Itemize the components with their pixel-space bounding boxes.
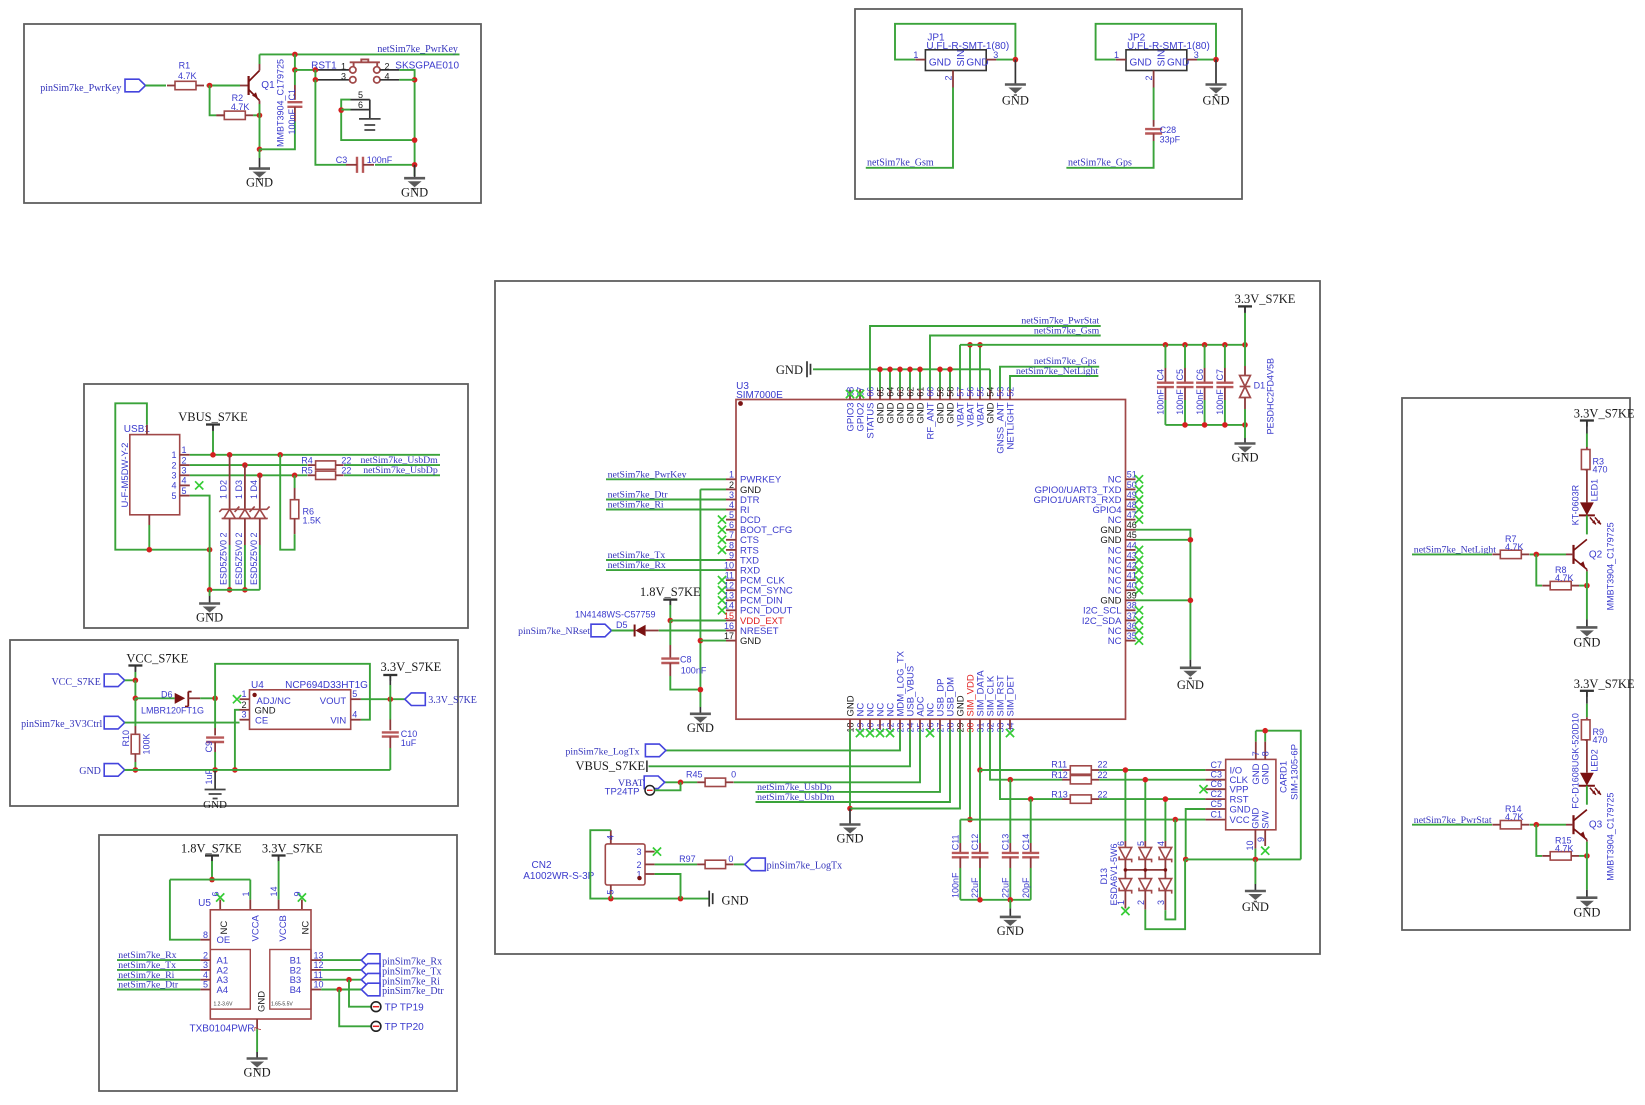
svg-text:C5: C5 bbox=[1210, 799, 1222, 809]
svg-text:1.2-3.6V: 1.2-3.6V bbox=[214, 1002, 234, 1008]
svg-text:SKSGPAE010: SKSGPAE010 bbox=[395, 61, 459, 72]
svg-text:1: 1 bbox=[182, 445, 187, 455]
svg-text:netSim7ke_Gps: netSim7ke_Gps bbox=[1068, 157, 1132, 168]
svg-text:pinSim7ke_LogTx: pinSim7ke_LogTx bbox=[565, 746, 639, 757]
svg-text:ESD5Z5V0 2: ESD5Z5V0 2 bbox=[249, 532, 259, 585]
svg-text:GND: GND bbox=[966, 58, 988, 69]
svg-text:2: 2 bbox=[241, 700, 246, 710]
svg-text:3.3V_S7KE: 3.3V_S7KE bbox=[262, 841, 323, 855]
svg-text:39: 39 bbox=[1127, 591, 1137, 601]
svg-text:22: 22 bbox=[1098, 760, 1108, 770]
svg-text:3: 3 bbox=[993, 50, 998, 60]
svg-text:VBUS_S7KE: VBUS_S7KE bbox=[178, 410, 248, 424]
svg-text:pinSim7ke_LogTx: pinSim7ke_LogTx bbox=[767, 860, 843, 871]
svg-text:netSim7ke_UsbDm: netSim7ke_UsbDm bbox=[757, 792, 835, 803]
svg-text:4: 4 bbox=[605, 835, 615, 840]
svg-text:NC: NC bbox=[301, 921, 312, 935]
svg-text:TP TP19: TP TP19 bbox=[385, 1003, 425, 1014]
svg-text:4.7K: 4.7K bbox=[1505, 812, 1524, 822]
svg-text:5: 5 bbox=[358, 90, 363, 100]
svg-text:1.8V_S7KE: 1.8V_S7KE bbox=[181, 841, 242, 855]
svg-text:A4: A4 bbox=[217, 985, 229, 996]
svg-text:C12: C12 bbox=[970, 834, 980, 851]
svg-text:D1: D1 bbox=[1254, 381, 1266, 391]
svg-text:2: 2 bbox=[182, 455, 187, 465]
svg-text:3: 3 bbox=[203, 960, 208, 970]
svg-text:40: 40 bbox=[1127, 581, 1137, 591]
svg-text:4.7K: 4.7K bbox=[1555, 843, 1574, 853]
svg-text:2: 2 bbox=[944, 75, 954, 80]
svg-text:R1: R1 bbox=[179, 61, 191, 71]
svg-text:22uF: 22uF bbox=[1001, 877, 1011, 898]
svg-text:GND: GND bbox=[1130, 58, 1152, 69]
svg-text:CE: CE bbox=[255, 715, 268, 726]
svg-text:5: 5 bbox=[171, 491, 176, 501]
svg-text:A1002WR-S-3P: A1002WR-S-3P bbox=[523, 871, 594, 882]
svg-text:38: 38 bbox=[1127, 601, 1137, 611]
svg-text:1uF: 1uF bbox=[401, 738, 417, 748]
svg-text:GND: GND bbox=[203, 799, 227, 811]
svg-text:Q3: Q3 bbox=[1589, 820, 1603, 831]
svg-text:Q1: Q1 bbox=[261, 80, 275, 91]
svg-text:C2: C2 bbox=[1210, 789, 1222, 799]
svg-text:GND: GND bbox=[401, 186, 428, 200]
svg-text:470: 470 bbox=[1593, 735, 1608, 745]
svg-text:2: 2 bbox=[729, 480, 734, 490]
svg-text:C8: C8 bbox=[680, 654, 692, 664]
svg-text:pinSim7ke_NRset: pinSim7ke_NRset bbox=[518, 626, 590, 637]
svg-text:3: 3 bbox=[171, 471, 176, 481]
svg-text:2: 2 bbox=[171, 460, 176, 470]
svg-text:3: 3 bbox=[1156, 900, 1166, 905]
svg-text:46: 46 bbox=[1127, 520, 1137, 530]
svg-text:C7: C7 bbox=[1215, 369, 1225, 381]
svg-text:C13: C13 bbox=[1001, 834, 1011, 851]
svg-text:1 D3: 1 D3 bbox=[234, 480, 244, 499]
svg-text:4: 4 bbox=[182, 476, 187, 486]
svg-text:C4: C4 bbox=[1156, 369, 1166, 381]
svg-text:GND: GND bbox=[1231, 451, 1258, 465]
svg-text:MMBT3904_C179725: MMBT3904_C179725 bbox=[1606, 522, 1616, 610]
svg-text:41: 41 bbox=[1127, 571, 1137, 581]
svg-text:20pF: 20pF bbox=[1021, 877, 1031, 898]
svg-text:GND: GND bbox=[1167, 58, 1189, 69]
svg-text:C7: C7 bbox=[1210, 760, 1222, 770]
svg-text:GND: GND bbox=[929, 58, 951, 69]
svg-text:3.3V_S7KE: 3.3V_S7KE bbox=[428, 695, 477, 706]
svg-text:VBUS_S7KE: VBUS_S7KE bbox=[576, 759, 646, 773]
svg-text:100K: 100K bbox=[142, 733, 152, 754]
svg-text:LMBR120FT1G: LMBR120FT1G bbox=[141, 706, 204, 716]
svg-text:1N4148WS-C57759: 1N4148WS-C57759 bbox=[575, 610, 656, 620]
svg-text:SIN: SIN bbox=[956, 50, 967, 67]
svg-text:50: 50 bbox=[1127, 480, 1137, 490]
svg-text:100nF: 100nF bbox=[287, 108, 297, 134]
svg-text:LED1: LED1 bbox=[1590, 479, 1600, 502]
svg-text:2: 2 bbox=[1136, 900, 1146, 905]
svg-text:GND: GND bbox=[79, 766, 101, 777]
svg-text:VCCB: VCCB bbox=[278, 915, 289, 941]
svg-text:0: 0 bbox=[731, 770, 736, 780]
svg-text:22: 22 bbox=[341, 466, 351, 476]
svg-text:43: 43 bbox=[1127, 550, 1137, 560]
svg-text:4.7K: 4.7K bbox=[1555, 573, 1574, 583]
svg-text:4: 4 bbox=[203, 970, 208, 980]
svg-text:3: 3 bbox=[182, 466, 187, 476]
svg-text:1 D4: 1 D4 bbox=[249, 480, 259, 499]
svg-text:NETLIGHT: NETLIGHT bbox=[1005, 402, 1016, 449]
svg-text:GND: GND bbox=[687, 721, 714, 735]
svg-text:C11: C11 bbox=[951, 834, 961, 850]
svg-text:CN2: CN2 bbox=[532, 860, 552, 871]
svg-text:GND: GND bbox=[836, 832, 863, 846]
svg-text:0: 0 bbox=[728, 854, 733, 864]
svg-text:10: 10 bbox=[724, 560, 734, 570]
svg-text:3: 3 bbox=[341, 71, 346, 81]
svg-text:R4: R4 bbox=[301, 455, 313, 465]
svg-text:100nF: 100nF bbox=[681, 665, 707, 675]
svg-text:GND: GND bbox=[722, 894, 749, 908]
svg-text:SIM-1305-6P: SIM-1305-6P bbox=[1290, 744, 1301, 800]
svg-text:6: 6 bbox=[358, 100, 363, 110]
svg-text:D13: D13 bbox=[1099, 868, 1109, 885]
svg-text:100nF: 100nF bbox=[1175, 389, 1185, 415]
svg-text:51: 51 bbox=[1127, 470, 1137, 480]
svg-text:5: 5 bbox=[729, 510, 734, 520]
svg-text:GND: GND bbox=[1002, 94, 1029, 108]
svg-text:TXB0104PWR: TXB0104PWR bbox=[190, 1024, 255, 1035]
svg-text:100nF: 100nF bbox=[367, 155, 393, 165]
svg-text:36: 36 bbox=[1127, 621, 1137, 631]
svg-text:GND: GND bbox=[740, 636, 761, 647]
svg-text:3.3V_S7KE: 3.3V_S7KE bbox=[1574, 407, 1635, 421]
svg-text:100nF: 100nF bbox=[1215, 389, 1225, 415]
svg-text:pinSim7ke_PwrKey: pinSim7ke_PwrKey bbox=[40, 83, 121, 94]
svg-text:netSim7ke_Gsm: netSim7ke_Gsm bbox=[867, 157, 934, 168]
svg-text:U-F-M5DW-Y-2: U-F-M5DW-Y-2 bbox=[120, 443, 131, 508]
svg-text:pinSim7ke_Dtr: pinSim7ke_Dtr bbox=[382, 986, 444, 997]
svg-text:C5: C5 bbox=[1175, 369, 1185, 381]
svg-text:35: 35 bbox=[1127, 631, 1137, 641]
svg-text:1 D2: 1 D2 bbox=[219, 480, 229, 499]
svg-text:6: 6 bbox=[211, 891, 221, 896]
svg-text:GND: GND bbox=[1573, 906, 1600, 920]
svg-text:C14: C14 bbox=[1021, 834, 1031, 851]
svg-text:CARD1: CARD1 bbox=[1279, 761, 1290, 793]
svg-text:C3: C3 bbox=[336, 155, 348, 165]
svg-text:11: 11 bbox=[314, 970, 323, 980]
svg-text:ESD5Z5V0 2: ESD5Z5V0 2 bbox=[219, 532, 229, 585]
svg-text:VCC: VCC bbox=[1230, 815, 1250, 826]
svg-text:R45: R45 bbox=[686, 770, 703, 780]
svg-text:22: 22 bbox=[341, 455, 351, 465]
svg-text:R5: R5 bbox=[301, 466, 313, 476]
svg-text:100nF: 100nF bbox=[1156, 389, 1166, 415]
svg-text:8: 8 bbox=[729, 540, 734, 550]
svg-text:10: 10 bbox=[1245, 840, 1255, 850]
svg-text:GND: GND bbox=[1242, 900, 1269, 914]
svg-text:GND: GND bbox=[1230, 804, 1251, 815]
svg-text:3: 3 bbox=[241, 710, 246, 720]
svg-text:49: 49 bbox=[1127, 490, 1137, 500]
svg-text:22uF: 22uF bbox=[970, 877, 980, 898]
svg-text:C3: C3 bbox=[1210, 770, 1222, 780]
svg-text:R11: R11 bbox=[1051, 760, 1067, 770]
svg-text:SIM7000E: SIM7000E bbox=[736, 390, 783, 401]
svg-text:4: 4 bbox=[352, 710, 357, 720]
svg-text:GND: GND bbox=[776, 363, 803, 377]
svg-text:1: 1 bbox=[729, 470, 734, 480]
svg-text:GND: GND bbox=[1202, 94, 1229, 108]
svg-text:C28: C28 bbox=[1160, 125, 1177, 135]
svg-text:U5: U5 bbox=[198, 898, 211, 909]
svg-text:3: 3 bbox=[1194, 50, 1199, 60]
svg-text:ESDA6V1-5W6: ESDA6V1-5W6 bbox=[1109, 843, 1119, 905]
svg-text:9: 9 bbox=[292, 891, 302, 896]
svg-text:10: 10 bbox=[314, 980, 324, 990]
svg-text:R12: R12 bbox=[1051, 770, 1068, 780]
svg-text:11: 11 bbox=[725, 571, 734, 581]
svg-text:C1: C1 bbox=[287, 89, 297, 101]
svg-text:5: 5 bbox=[182, 486, 187, 496]
svg-text:C6: C6 bbox=[1195, 369, 1205, 381]
svg-text:NC: NC bbox=[219, 921, 230, 935]
svg-text:4: 4 bbox=[729, 500, 734, 510]
svg-text:RST1: RST1 bbox=[311, 61, 337, 72]
svg-text:2: 2 bbox=[385, 61, 390, 71]
svg-text:GND: GND bbox=[1177, 678, 1204, 692]
svg-text:GND: GND bbox=[246, 176, 273, 190]
svg-text:12: 12 bbox=[314, 960, 324, 970]
svg-text:1: 1 bbox=[913, 50, 918, 60]
svg-text:33pF: 33pF bbox=[1160, 135, 1181, 145]
svg-text:2: 2 bbox=[203, 950, 208, 960]
svg-text:LED2: LED2 bbox=[1590, 749, 1600, 772]
svg-text:SIM_DET: SIM_DET bbox=[1005, 675, 1016, 716]
svg-text:100nF: 100nF bbox=[951, 872, 961, 898]
svg-text:14: 14 bbox=[269, 886, 279, 896]
svg-text:16: 16 bbox=[724, 621, 734, 631]
svg-text:GND: GND bbox=[196, 611, 223, 625]
svg-text:D5: D5 bbox=[616, 620, 628, 630]
svg-text:1.8V_S7KE: 1.8V_S7KE bbox=[640, 585, 701, 599]
svg-text:4.7K: 4.7K bbox=[178, 71, 197, 81]
svg-text:15: 15 bbox=[724, 611, 734, 621]
svg-text:17: 17 bbox=[724, 631, 734, 641]
svg-text:GND: GND bbox=[257, 991, 268, 1012]
svg-text:4: 4 bbox=[1156, 841, 1166, 846]
svg-text:S/W: S/W bbox=[1260, 811, 1271, 829]
svg-text:VCCA: VCCA bbox=[250, 914, 261, 941]
svg-text:D6: D6 bbox=[161, 690, 173, 700]
svg-text:GND: GND bbox=[1573, 635, 1600, 649]
svg-text:GND: GND bbox=[244, 1066, 271, 1080]
svg-text:22: 22 bbox=[1098, 770, 1108, 780]
svg-text:8: 8 bbox=[1261, 751, 1271, 756]
svg-text:37: 37 bbox=[1127, 611, 1137, 621]
svg-text:48: 48 bbox=[1127, 500, 1137, 510]
svg-text:1: 1 bbox=[1114, 50, 1119, 60]
svg-text:42: 42 bbox=[1127, 560, 1137, 570]
svg-text:5: 5 bbox=[1136, 841, 1146, 846]
svg-text:6: 6 bbox=[729, 520, 734, 530]
svg-text:3.3V_S7KE: 3.3V_S7KE bbox=[1574, 677, 1635, 691]
svg-text:OE: OE bbox=[217, 935, 231, 946]
svg-text:C1: C1 bbox=[1210, 809, 1222, 819]
svg-text:U4: U4 bbox=[251, 680, 264, 691]
svg-text:R10: R10 bbox=[121, 730, 131, 747]
svg-text:VIN: VIN bbox=[330, 715, 346, 726]
svg-text:MMBT3904_C179725: MMBT3904_C179725 bbox=[1606, 793, 1616, 881]
svg-text:22: 22 bbox=[1098, 789, 1108, 799]
svg-text:2: 2 bbox=[636, 860, 641, 870]
svg-text:SIN: SIN bbox=[1157, 50, 1168, 67]
svg-text:1: 1 bbox=[341, 61, 346, 71]
svg-text:4: 4 bbox=[171, 481, 176, 491]
svg-text:4.7K: 4.7K bbox=[1505, 542, 1524, 552]
svg-text:MMBT3904_C179725: MMBT3904_C179725 bbox=[276, 59, 286, 147]
svg-text:VOUT: VOUT bbox=[320, 696, 347, 707]
svg-text:9: 9 bbox=[1256, 837, 1266, 842]
svg-text:4.7K: 4.7K bbox=[231, 102, 250, 112]
svg-text:1: 1 bbox=[171, 450, 176, 460]
svg-text:470: 470 bbox=[1593, 465, 1608, 475]
svg-text:VCC_S7KE: VCC_S7KE bbox=[126, 651, 188, 665]
svg-text:C9: C9 bbox=[204, 741, 214, 753]
svg-text:1.65-5.5V: 1.65-5.5V bbox=[271, 1002, 293, 1008]
svg-text:KT-0603R: KT-0603R bbox=[1571, 484, 1581, 525]
svg-text:pinSim7ke_3V3Ctrl: pinSim7ke_3V3Ctrl bbox=[21, 719, 102, 730]
svg-text:3: 3 bbox=[636, 847, 641, 857]
svg-text:Q2: Q2 bbox=[1589, 549, 1603, 560]
svg-text:45: 45 bbox=[1127, 530, 1137, 540]
svg-text:C6: C6 bbox=[1210, 779, 1222, 789]
svg-text:4: 4 bbox=[385, 71, 390, 81]
svg-text:R13: R13 bbox=[1051, 789, 1068, 799]
svg-text:TP24TP: TP24TP bbox=[605, 786, 640, 797]
svg-text:GND: GND bbox=[997, 924, 1024, 938]
svg-text:100nF: 100nF bbox=[1195, 389, 1205, 415]
svg-text:netSim7ke_UsbDp: netSim7ke_UsbDp bbox=[363, 465, 438, 476]
svg-text:PESDHC2FD4V5B: PESDHC2FD4V5B bbox=[1266, 358, 1276, 435]
svg-text:3.3V_S7KE: 3.3V_S7KE bbox=[381, 660, 442, 674]
svg-text:B4: B4 bbox=[290, 985, 302, 996]
svg-text:1.5K: 1.5K bbox=[303, 515, 322, 525]
svg-text:1uF: 1uF bbox=[204, 769, 214, 785]
svg-text:2: 2 bbox=[1144, 75, 1154, 80]
svg-text:5: 5 bbox=[203, 980, 208, 990]
svg-text:9: 9 bbox=[729, 550, 734, 560]
svg-text:GND: GND bbox=[1261, 763, 1272, 784]
svg-text:netSim7ke_Gsm: netSim7ke_Gsm bbox=[1034, 325, 1100, 336]
svg-text:VCC_S7KE: VCC_S7KE bbox=[51, 677, 100, 688]
svg-text:8: 8 bbox=[203, 930, 208, 940]
svg-text:R97: R97 bbox=[679, 854, 696, 864]
svg-text:ESD5Z5V0 2: ESD5Z5V0 2 bbox=[234, 532, 244, 585]
svg-text:TP TP20: TP TP20 bbox=[385, 1022, 425, 1033]
svg-text:FC-D1608UGK-520D10: FC-D1608UGK-520D10 bbox=[1571, 713, 1581, 809]
svg-text:7: 7 bbox=[729, 530, 734, 540]
svg-text:1: 1 bbox=[241, 689, 246, 699]
svg-text:5: 5 bbox=[605, 890, 615, 895]
svg-text:5: 5 bbox=[352, 689, 357, 699]
svg-text:netSim7ke_NetLight: netSim7ke_NetLight bbox=[1016, 366, 1098, 377]
svg-text:3.3V_S7KE: 3.3V_S7KE bbox=[1235, 292, 1296, 306]
svg-text:13: 13 bbox=[314, 950, 324, 960]
svg-text:netSim7ke_PwrKey: netSim7ke_PwrKey bbox=[377, 44, 458, 55]
svg-text:1: 1 bbox=[241, 891, 251, 896]
svg-text:3: 3 bbox=[729, 490, 734, 500]
svg-text:47: 47 bbox=[1127, 510, 1137, 520]
svg-text:NC: NC bbox=[1108, 636, 1122, 647]
svg-text:44: 44 bbox=[1127, 540, 1137, 550]
